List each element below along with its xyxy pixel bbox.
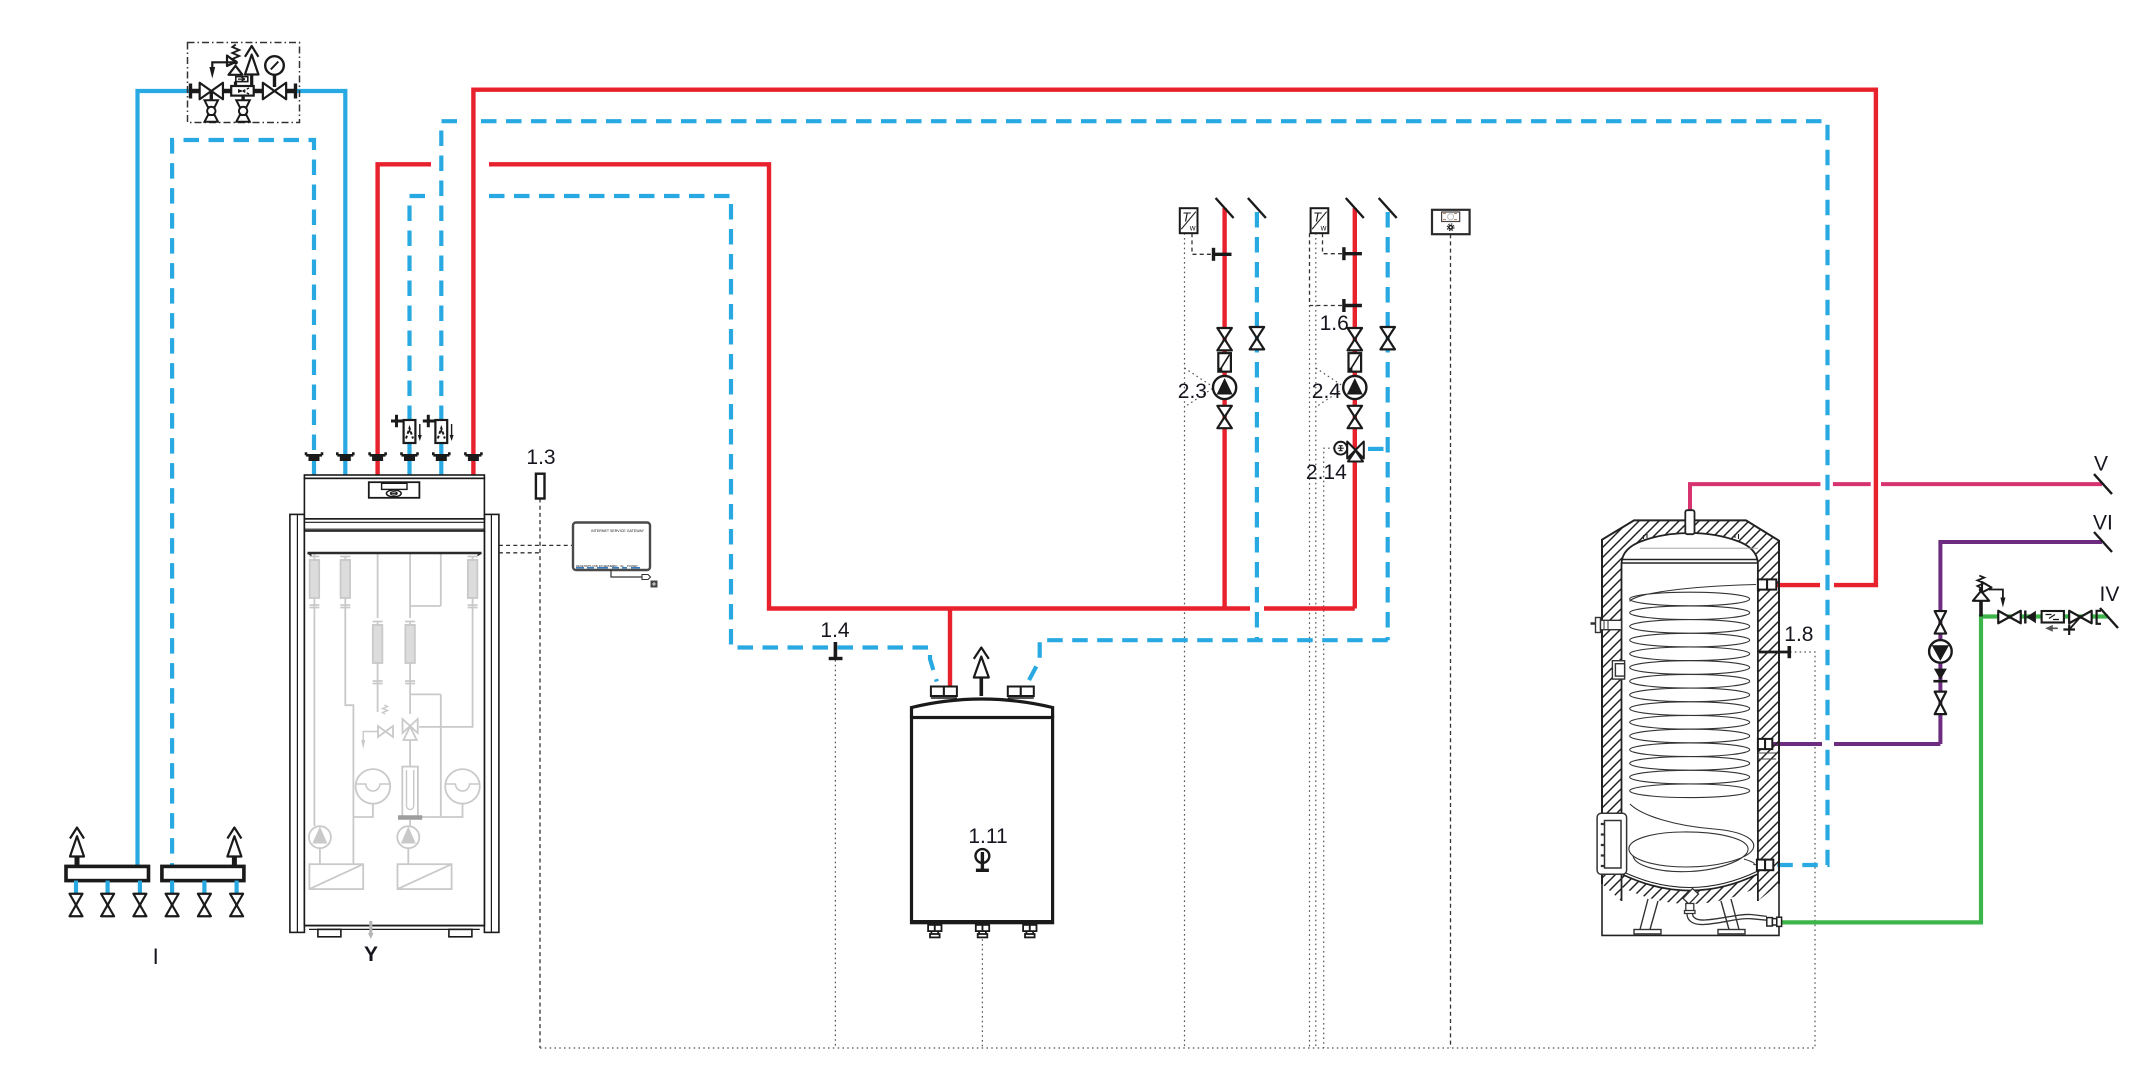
- wire dotted sensor 1.6 down to bus: [1309, 306, 1311, 1049]
- mixing valve 2.14 with actuator: [1347, 442, 1364, 462]
- circulation pump: [1929, 640, 1952, 663]
- safety group backflow preventer body: [231, 86, 254, 96]
- manifold outlet pipe and valve 2: [105, 881, 109, 894]
- wire green cold water line IV: [1781, 617, 2108, 923]
- safety group drain valve left: [205, 100, 219, 107]
- filter 2.3: [1218, 353, 1231, 372]
- pump 2.3: [1213, 376, 1236, 399]
- svg-text:IV: IV: [2100, 583, 2120, 606]
- buffer tank bottom fittings: [928, 925, 941, 938]
- shutoff valve below pump 2.3: [1217, 406, 1232, 428]
- pipe sensor circuit 2.4: [1342, 247, 1345, 260]
- wire dotted control bus bottom: [540, 1047, 1815, 1049]
- wire dashed sensor 1.3 to controller: [539, 499, 541, 1049]
- wire blue dashed heat pump port 1 to manifold I return: [172, 140, 314, 866]
- DHW tank green drain fitting: [1767, 917, 1782, 926]
- wire red branch down to buffer tank 1.11: [948, 609, 952, 687]
- wire blue dashed port 4 to buffer tank left: [410, 196, 432, 421]
- wire blue dashed return line to buffer tank right: [1028, 640, 1388, 683]
- shutoff valve circulation top: [1935, 611, 1947, 634]
- wire purple DHW circulation line VI: [1770, 542, 2102, 744]
- outdoor sensor box Tw circuit 2.4: [1311, 208, 1329, 233]
- heating circuit 2.4 group: [1311, 198, 1397, 462]
- sensor 1.8: [1759, 651, 1788, 654]
- line V end slash: [2094, 474, 2112, 494]
- heat pump connection fitting 5: [433, 452, 449, 455]
- safety group main pipe: [189, 89, 297, 94]
- safety group shutoff valve left: [200, 83, 223, 100]
- DHW tank lower spiral coil: [1629, 804, 1757, 872]
- svg-text:2.3: 2.3: [1178, 380, 1207, 403]
- Y marker pin: [369, 921, 372, 936]
- air vent arrow in safety group: [245, 46, 259, 57]
- shutoff valve supply 2.3: [1217, 328, 1232, 350]
- wire blue stub below filter port 4: [407, 443, 411, 475]
- pipe sensor circuit 2.3: [1212, 248, 1215, 261]
- pipe break slash marks circuit 2.3: [1216, 198, 1234, 218]
- svg-text:1.3: 1.3: [526, 446, 555, 469]
- wire red heat pump port 6 to DHW tank top coil: [473, 90, 1876, 585]
- svg-text:w: w: [1320, 224, 1327, 233]
- internet service gateway: [573, 523, 658, 588]
- shutoff valve return 2.3: [1250, 327, 1265, 349]
- svg-text:w: w: [1189, 224, 1196, 233]
- safety valve discharge arrow: [212, 62, 235, 68]
- svg-text:2.4: 2.4: [1312, 380, 1342, 403]
- filter on port 4: [391, 415, 422, 443]
- wire dashed heat pump to bus: [499, 552, 540, 554]
- DHW tank left small port: [1612, 661, 1624, 679]
- safety valve with spring: [229, 66, 243, 75]
- manifold I left bar: [66, 828, 149, 881]
- wire red riser heating circuit 2.3: [1222, 208, 1226, 609]
- heat pump connection fitting 2: [337, 452, 353, 455]
- wire dotted sensor 1.4 to bus: [834, 660, 836, 1048]
- DHW tank heating coil: [1630, 585, 1756, 798]
- svg-text:VI: VI: [2093, 512, 2113, 535]
- temperature sensor 1.11: [976, 849, 990, 863]
- wire dashed Tw 2.3 to pipe sensor: [1192, 233, 1212, 254]
- manifold outlet pipe and valve 5: [202, 881, 206, 894]
- pipe sensor 1.6: [1342, 299, 1345, 312]
- svg-text:Y: Y: [364, 943, 378, 966]
- svg-text:1.6: 1.6: [1320, 312, 1349, 335]
- heat pump interior top rail: [308, 552, 482, 554]
- filter 2.4: [1349, 353, 1362, 372]
- svg-text:T: T: [1313, 210, 1322, 225]
- pressure gauge: [273, 75, 276, 88]
- DHW tank legs: [1634, 899, 1745, 934]
- heat pump connection fitting 1: [306, 452, 322, 455]
- svg-text:I: I: [153, 944, 159, 969]
- safety group drain valve middle: [241, 96, 244, 101]
- wire dashed sensor 1.6 connection: [1310, 233, 1343, 305]
- safety group dash-dot box: [188, 43, 300, 123]
- check valve circulation: [1934, 669, 1947, 680]
- shutoff valve below pump 2.4: [1348, 406, 1363, 428]
- heat pump connection fitting 6: [465, 452, 481, 455]
- svg-text:1.8: 1.8: [1784, 623, 1813, 646]
- shutoff valve on IV: [1998, 611, 2021, 624]
- svg-text:V: V: [2094, 453, 2108, 476]
- safety valve group on cold water line IV: [1973, 576, 2006, 617]
- pipe break slash marks circuit 2.4: [1346, 198, 1364, 218]
- outdoor sensor box Tw circuit 2.3: [1180, 208, 1198, 233]
- heat pump connection fitting 4: [402, 452, 418, 455]
- svg-text:2.14: 2.14: [1306, 461, 1347, 484]
- safety group risers: [236, 75, 252, 87]
- wire pink DHW hot water line V: [1690, 484, 2102, 534]
- wire blue dashed return heating circuit 2.4: [1386, 212, 1390, 640]
- manifold outlet pipe and valve 1: [74, 881, 78, 894]
- manifold outlet pipe and valve 4: [170, 881, 174, 894]
- wire dotted Tw sensor circuit 2.3 to bus with pump pointer: [1184, 233, 1186, 1048]
- wire blue supply from safety group left down to manifold I: [138, 91, 191, 866]
- DHW tank drain pipe: [1683, 889, 1767, 925]
- svg-text:INTERNET SERVICE GATEWAY: INTERNET SERVICE GATEWAY: [591, 529, 645, 533]
- wire red riser heating circuit 2.4: [1353, 208, 1357, 609]
- sensor 1.4 on return line: [834, 642, 838, 659]
- shutoff valve circulation bottom: [1935, 692, 1947, 715]
- safety group shutoff valve right: [263, 83, 286, 100]
- heat pump unit Y cabinet: [290, 475, 499, 932]
- shutoff valve return 2.4: [1380, 327, 1395, 349]
- buffer tank air vent: [979, 676, 983, 696]
- filter on port 5: [423, 415, 454, 443]
- wire dotted mixing valve 2.14 actuator to bus: [1324, 448, 1335, 1048]
- line IV end bracket and slash: [2097, 611, 2101, 624]
- manifold outlet pipe and valve 6: [235, 881, 239, 894]
- DHW tank blue dashed fitting: [1757, 860, 1765, 871]
- check valve on IV: [2024, 611, 2026, 624]
- shutoff valve supply 2.4: [1348, 328, 1363, 350]
- DHW tank red inlet fitting: [1758, 579, 1767, 589]
- DHW storage tank body with insulation: [1602, 520, 1779, 935]
- heat pump internal hydraulics (gray): [309, 553, 480, 889]
- svg-text:T: T: [1182, 210, 1191, 225]
- outdoor temperature sensor 1.3: [536, 474, 545, 499]
- wire blue dashed stub mixing valve 2.14: [1368, 447, 1387, 451]
- DHW tank top nipple for line V: [1685, 510, 1694, 534]
- wire dotted sensor 1.8 to bus: [1790, 652, 1815, 1048]
- manifold I right bar: [162, 828, 244, 881]
- svg-text:1.4: 1.4: [820, 619, 850, 642]
- DHW tank cleaning flange: [1597, 813, 1627, 874]
- shutoff valve with drain on IV: [2069, 611, 2092, 624]
- buffer tank 1.11: [912, 699, 1053, 923]
- room controller unit: [1432, 210, 1470, 234]
- wire dashed Tw 2.4 to pipe sensor: [1323, 233, 1343, 254]
- buffer tank top fittings: [931, 687, 944, 697]
- wire blue dashed port 5 to DHW tank lower coil: [441, 121, 466, 421]
- pump 2.4: [1343, 376, 1366, 399]
- heat pump connection fitting 3: [370, 452, 386, 455]
- wire red heat pump port 3 to heating circuits manifold line: [378, 164, 431, 475]
- manifold outlet pipe and valve 3: [138, 881, 142, 894]
- wire blue stub below filter port 5: [439, 443, 443, 475]
- wire blue dashed return heating circuit 2.3: [1255, 212, 1259, 640]
- wire blue from safety group right to heat pump port 2: [296, 91, 345, 475]
- DHW tank purple fitting: [1758, 739, 1765, 749]
- heating circuit 2.3 group: [1180, 198, 1266, 428]
- wire dotted sensor 1.11 to bus: [981, 872, 983, 1048]
- DHW tank left sensor well: [1591, 618, 1622, 633]
- wire dashed heat pump to gateway: [499, 544, 573, 546]
- line VI end slash: [2094, 532, 2112, 552]
- wire dashed room controller to bus: [1450, 234, 1452, 1048]
- wire dotted Tw sensor circuit 2.4 to bus with pump pointer: [1315, 233, 1317, 1048]
- svg-text:1.11: 1.11: [968, 825, 1007, 848]
- water meter on IV: [2042, 611, 2064, 623]
- heat pump base and feet: [304, 926, 484, 937]
